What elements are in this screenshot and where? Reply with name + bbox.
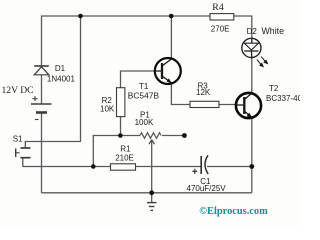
svg-text:R1: R1 (120, 145, 131, 154)
svg-text:12V DC: 12V DC (2, 85, 34, 96)
svg-text:BC547B: BC547B (128, 91, 160, 101)
svg-text:D1: D1 (55, 64, 66, 73)
svg-text:210E: 210E (115, 153, 134, 162)
svg-text:1N4001: 1N4001 (47, 75, 76, 84)
svg-text:100K: 100K (135, 118, 154, 127)
svg-text:White: White (262, 26, 285, 36)
svg-text:©Elprocus.com: ©Elprocus.com (199, 206, 268, 217)
svg-text:T1: T1 (139, 82, 149, 91)
svg-text:BC337-40: BC337-40 (266, 94, 300, 103)
svg-text:470uF/25V: 470uF/25V (187, 184, 227, 193)
svg-text:R4: R4 (212, 2, 224, 13)
svg-text:D2: D2 (247, 27, 258, 36)
svg-text:12K: 12K (196, 88, 211, 97)
svg-text:10K: 10K (100, 104, 115, 113)
svg-text:S1: S1 (13, 134, 23, 143)
svg-text:T2: T2 (269, 84, 279, 93)
svg-text:270E: 270E (211, 24, 230, 33)
